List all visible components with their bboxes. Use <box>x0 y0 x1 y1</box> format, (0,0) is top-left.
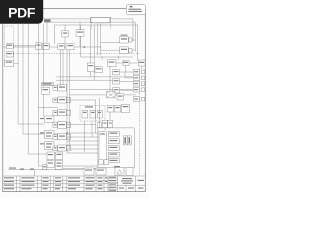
wire riser D <box>38 24 98 166</box>
module stack box S2 <box>58 97 67 103</box>
wire riser C <box>28 24 56 154</box>
relay K1 box <box>7 43 14 48</box>
text smudges group <box>4 19 144 191</box>
terminal row TR4 <box>133 87 145 92</box>
wire feeder upper <box>14 45 36 47</box>
dashed zone separator <box>14 53 140 55</box>
aux box right <box>117 94 124 100</box>
fuse FU3 box <box>97 110 102 118</box>
wire drop mid 2 <box>93 25 95 80</box>
title block right row <box>118 184 146 186</box>
wire TR2 feed <box>125 72 133 78</box>
wire hline 4 <box>70 94 136 96</box>
wire bundle b5 <box>67 148 98 150</box>
wire RB2 out <box>132 49 135 51</box>
feeder box FB3 <box>113 88 120 93</box>
wire bundle b2 <box>67 136 98 138</box>
label box row6 <box>53 146 58 151</box>
module stack box S4 <box>58 122 67 129</box>
PDF badge <box>0 0 43 24</box>
wire busbar leg 1 <box>96 24 98 56</box>
wire lamp row b <box>129 62 138 64</box>
title block col k <box>103 176 105 192</box>
node J1 junction <box>84 46 86 48</box>
wire bundle b3 <box>67 140 98 142</box>
wire busbar leg 2 <box>100 24 102 56</box>
meter M1 box <box>76 30 84 36</box>
wire hline 1 <box>56 76 133 78</box>
wire branch y107 <box>38 107 58 109</box>
breaker Q1 box <box>36 43 42 49</box>
module stack box S5 <box>58 134 67 140</box>
node J3 junction <box>55 153 56 154</box>
aux contact box <box>95 67 103 73</box>
wire T1 up <box>64 25 66 31</box>
title block col d <box>40 176 42 192</box>
stamp box ST3 <box>115 168 124 176</box>
wire hline 2 <box>56 79 120 81</box>
panel module m1 <box>108 131 119 136</box>
wire stub row b <box>65 112 67 114</box>
aux box row2 <box>66 98 71 103</box>
wire drop d1 <box>33 170 35 176</box>
approval logo box top right <box>126 4 145 14</box>
drawing frame border <box>3 9 146 192</box>
title block col i <box>83 176 85 192</box>
stamp box ST2 <box>96 168 106 175</box>
wire riser A <box>18 24 44 124</box>
wire RB1 out <box>132 39 135 41</box>
lamp row L3 box <box>138 60 145 66</box>
terminal X1 box <box>5 60 14 66</box>
wire bundle b1 <box>67 132 98 134</box>
wire drop left 2 <box>54 25 56 44</box>
wire lamp stub 3 <box>141 66 143 69</box>
title block col b <box>19 176 21 192</box>
title block bottom cells <box>125 185 127 191</box>
busbar box <box>91 18 111 23</box>
aux RB1 box <box>129 38 132 42</box>
panel tall box <box>99 132 106 163</box>
title block mini rows <box>108 178 118 180</box>
panel pair box a <box>123 136 127 145</box>
transformer T1 box <box>62 31 68 37</box>
label box row2 <box>53 98 58 103</box>
module box M3a <box>102 120 107 127</box>
wire panel top drop <box>104 128 106 131</box>
left column box LC4 <box>47 152 54 160</box>
panel module m2 <box>108 139 119 144</box>
module stack box S3 <box>58 110 67 116</box>
module box M2 <box>107 105 113 112</box>
breaker X cross b <box>107 92 116 98</box>
module box M3c <box>97 123 101 128</box>
bottom cluster box E <box>42 165 46 170</box>
fuse FU2 box <box>90 110 96 118</box>
title block col a <box>16 176 18 192</box>
contactor KM1 box <box>87 63 94 72</box>
title block col g <box>62 176 64 192</box>
breaker X box <box>107 92 116 98</box>
left column box LC1 <box>45 116 55 123</box>
label box row3 <box>53 111 58 116</box>
wire M1 up <box>79 22 81 30</box>
wire lamp stub 2 <box>125 66 127 72</box>
title block col e <box>49 176 51 192</box>
top nested enclosure line 3 <box>55 25 138 61</box>
wire bundle b4 <box>67 144 98 146</box>
title block row line 3 <box>3 186 118 188</box>
node J2 junction <box>53 133 54 134</box>
wire RB stub 1 <box>101 56 103 60</box>
enclosure left edge <box>80 25 82 57</box>
left column box LC3 <box>45 142 55 150</box>
breaker X cross a <box>107 92 116 98</box>
wire FB2 to terminals <box>120 80 134 82</box>
wire vert v7 <box>95 100 97 133</box>
aux box row6 <box>66 146 71 151</box>
lamp row L2 box <box>123 60 129 66</box>
title block col c <box>37 176 39 192</box>
central panel label <box>41 83 53 86</box>
relay block RB2 <box>120 47 128 54</box>
bottom cluster box C <box>47 161 54 168</box>
wire RB1 feed <box>101 41 120 43</box>
wire vert v1 <box>66 50 68 153</box>
wire vert v5 <box>98 98 100 128</box>
dashed zone vertical <box>139 68 141 176</box>
aux box row3 <box>66 110 71 115</box>
wire bundle b6 <box>67 152 98 154</box>
title block col j <box>95 176 97 192</box>
title block row line 1 <box>3 179 118 181</box>
wire riser B <box>23 24 58 134</box>
breaker Q4 box <box>66 44 74 50</box>
left column box LC2 <box>45 131 55 139</box>
wire T1 down <box>64 37 66 44</box>
module stack box S6 <box>58 145 67 151</box>
relay K2 box <box>7 52 14 57</box>
terminal row TR5 <box>133 97 145 102</box>
label box row1 <box>53 86 58 91</box>
panel bottom box a <box>99 160 104 165</box>
dashed zone vertical a <box>91 17 93 30</box>
top nested enclosure line 1 <box>43 19 133 41</box>
wire M1 down <box>79 36 81 47</box>
wire FB1 to terminals <box>120 71 134 73</box>
wire bottom feeder <box>8 169 98 171</box>
wire RB2 feed <box>101 49 120 51</box>
panel pair box b <box>127 136 131 145</box>
wire drop q3 <box>60 50 62 87</box>
label box row4 <box>53 123 58 128</box>
wire vert v4 <box>91 121 93 137</box>
wire drop mid 1 <box>89 25 91 77</box>
panel box P1 <box>41 87 49 94</box>
title block top line <box>3 175 146 177</box>
bottom cluster box D <box>55 161 62 170</box>
top nested enclosure line 2 <box>47 22 135 51</box>
fuse FU1 box <box>82 110 88 118</box>
feeder box FB2 <box>113 79 120 84</box>
wire stub row c <box>66 124 95 126</box>
title block col h <box>66 176 68 192</box>
wire lamp stub 1 <box>109 66 111 92</box>
dashed zone vertical b <box>110 17 112 30</box>
title block col f <box>53 176 55 192</box>
module stack box S1 <box>58 85 67 92</box>
label box row5 <box>53 135 58 140</box>
module box M6 <box>114 105 120 112</box>
svg-text:PDF: PDF <box>8 5 35 21</box>
wire vert v2 <box>69 50 71 149</box>
generator panel enclosure <box>98 128 134 168</box>
enclosure bottom edge <box>81 56 133 58</box>
feeder box FB1 <box>113 70 120 75</box>
aux RB2 box <box>129 48 132 52</box>
node J4 junction <box>66 132 67 133</box>
panel module m5 <box>108 159 119 163</box>
wire vert v3 <box>83 121 85 152</box>
terminal row TR2 <box>133 76 145 81</box>
wire drop left 1 <box>46 22 48 44</box>
stamp triangle ST3 <box>117 170 122 175</box>
stamp box ST1 <box>84 168 94 175</box>
wire RB stub 2 <box>118 56 120 60</box>
lamp row L1 box <box>108 60 117 67</box>
relay block RB1 <box>120 37 128 44</box>
title block col l <box>107 176 109 192</box>
aux box row5 <box>66 134 71 139</box>
wire drop q4 <box>62 50 64 85</box>
bottom cluster box B <box>55 152 62 160</box>
breaker Q3 box <box>58 44 64 50</box>
wire hline 3 <box>70 88 134 90</box>
left dashed enclosure <box>5 26 14 63</box>
terminal row TR1 <box>133 70 145 75</box>
aux box row4 <box>66 122 71 127</box>
module box M7 <box>121 104 129 113</box>
central dashed sub-enclosure <box>80 106 105 122</box>
wire lamp row a <box>116 62 123 64</box>
module box M3b <box>108 120 113 127</box>
terminal row TR3 <box>133 81 145 86</box>
wire stub row a <box>66 99 95 101</box>
wire vert v6 <box>109 112 111 120</box>
panel module m3 <box>108 146 119 151</box>
title block row line 2 <box>3 183 118 185</box>
wire X1 right <box>14 63 19 65</box>
breaker Q2 box <box>42 43 49 49</box>
main bus wire <box>3 46 102 48</box>
wire FB3 to terminals <box>120 89 134 91</box>
title block col m <box>117 176 119 192</box>
wire drop d2 <box>63 168 98 170</box>
panel module m4 <box>108 152 119 157</box>
title block right divider <box>135 176 137 185</box>
panel bottom box b <box>104 160 109 165</box>
stamp box ST4 <box>126 168 133 176</box>
wire riser E <box>43 24 45 116</box>
